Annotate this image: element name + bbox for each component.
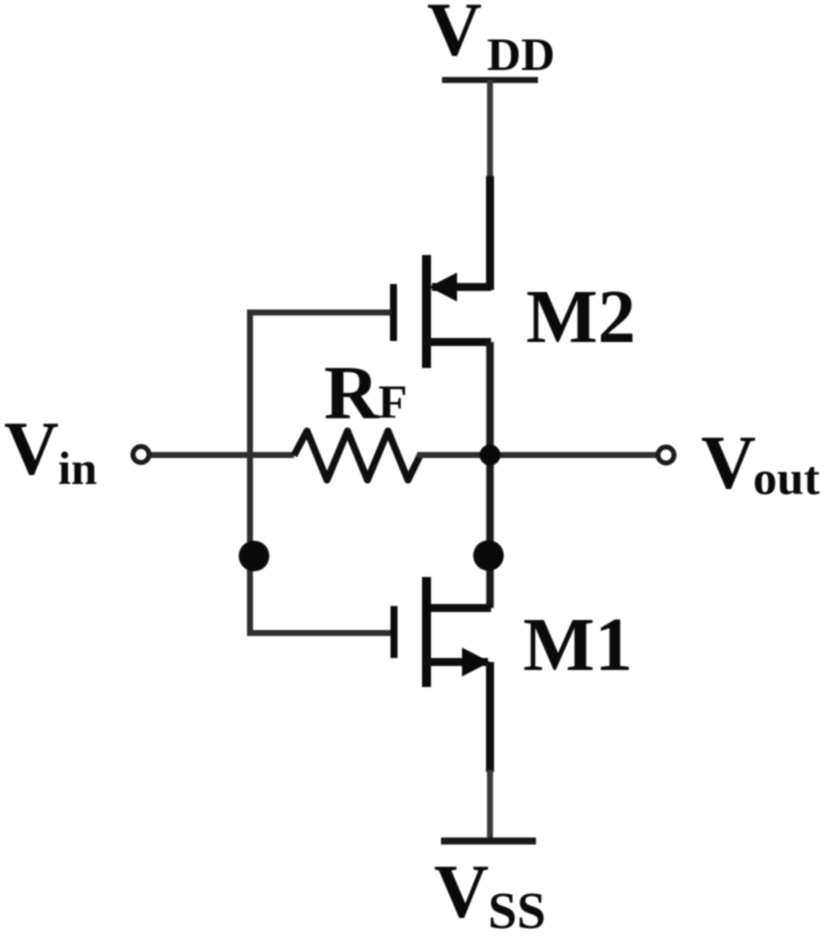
svg-text:V: V	[434, 850, 489, 934]
svg-text:F: F	[378, 376, 407, 429]
svg-text:in: in	[58, 443, 97, 495]
svg-text:V: V	[427, 0, 482, 72]
svg-text:V: V	[701, 421, 756, 505]
svg-text:M2: M2	[526, 275, 636, 359]
svg-text:DD: DD	[487, 29, 555, 81]
svg-text:M1: M1	[523, 603, 633, 687]
svg-text:R: R	[324, 351, 380, 435]
svg-text:V: V	[4, 407, 59, 491]
svg-text:SS: SS	[488, 883, 546, 939]
svg-text:out: out	[753, 452, 820, 505]
